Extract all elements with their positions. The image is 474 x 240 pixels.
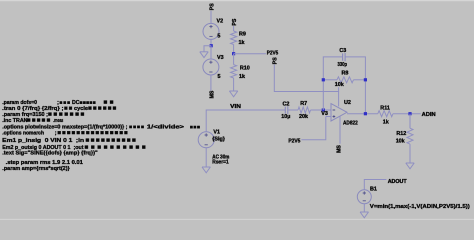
svg-text:V2: V2 bbox=[217, 19, 224, 25]
svg-text:■■■■■■■■■■■■■■■: ■■■■■■■■■■■■■■■ bbox=[57, 130, 129, 136]
svg-text:PS: PS bbox=[232, 18, 238, 25]
svg-text:R9: R9 bbox=[239, 32, 246, 38]
svg-text:ADOUT: ADOUT bbox=[388, 179, 408, 185]
svg-text:MS: MS bbox=[337, 145, 343, 153]
svg-text:■■■■■■: ■■■■■■ bbox=[88, 105, 117, 112]
svg-text:5: 5 bbox=[217, 34, 220, 40]
svg-text:■■■■■■■: ■■■■■■■ bbox=[48, 111, 86, 118]
svg-text:AD822: AD822 bbox=[343, 120, 358, 126]
svg-text:1k: 1k bbox=[239, 40, 245, 46]
svg-text:R10: R10 bbox=[240, 65, 250, 71]
svg-text:C2: C2 bbox=[283, 102, 290, 108]
svg-text:VIN: VIN bbox=[230, 104, 241, 110]
svg-text:.meas: .meas bbox=[53, 118, 63, 124]
svg-text:V1: V1 bbox=[213, 130, 220, 136]
svg-text:R11: R11 bbox=[380, 106, 390, 112]
svg-text:R8: R8 bbox=[342, 71, 349, 77]
svg-text:.step param rms 1.9 2.1 0.01: .step param rms 1.9 2.1 0.01 bbox=[6, 160, 83, 166]
svg-text:.options plotwinsize=0 maxstep: .options plotwinsize=0 maxstep={1/(frq*1… bbox=[2, 124, 127, 130]
svg-text:V=min(1,max(-1,V(ADIN,P2V5)/1.: V=min(1,max(-1,V(ADIN,P2V5)/1.5)) bbox=[370, 204, 470, 210]
svg-text:V3: V3 bbox=[217, 55, 224, 61]
svg-text:.param amp={rms*sqrt(2)}: .param amp={rms*sqrt(2)} bbox=[2, 166, 70, 172]
svg-text:B1: B1 bbox=[370, 187, 377, 193]
svg-text:10µ: 10µ bbox=[281, 114, 290, 120]
svg-text:PS: PS bbox=[210, 3, 216, 10]
svg-text:■■■■■: ■■■■■ bbox=[27, 117, 52, 124]
svg-text:.options nomarch: .options nomarch bbox=[2, 130, 44, 136]
svg-text:10k: 10k bbox=[396, 139, 405, 145]
svg-text:R7: R7 bbox=[300, 101, 307, 107]
svg-text:5: 5 bbox=[218, 74, 221, 80]
svg-text:1/<divide>: 1/<divide> bbox=[147, 124, 185, 130]
svg-text:ADIN: ADIN bbox=[422, 112, 436, 118]
svg-text:U2: U2 bbox=[344, 100, 351, 106]
svg-text:PS: PS bbox=[272, 57, 278, 64]
svg-text:■■■: ■■■ bbox=[190, 125, 201, 130]
svg-text:.inc TRAN: .inc TRAN bbox=[2, 118, 27, 124]
svg-text:1k: 1k bbox=[383, 119, 389, 125]
svg-text:10k: 10k bbox=[335, 82, 344, 88]
svg-text:330p: 330p bbox=[338, 62, 348, 68]
svg-text:MS: MS bbox=[210, 90, 216, 98]
svg-text:20k: 20k bbox=[299, 114, 308, 120]
svg-text:Rser=1: Rser=1 bbox=[212, 160, 228, 166]
svg-text:C3: C3 bbox=[339, 48, 346, 54]
svg-text:1k: 1k bbox=[239, 74, 245, 80]
svg-text:P2V5: P2V5 bbox=[288, 138, 300, 144]
svg-text:■■■■: ■■■■ bbox=[129, 124, 145, 130]
svg-text:.text Sig="SINE({dofs} {amp} {: .text Sig="SINE({dofs} {amp} {frq})" bbox=[2, 151, 98, 157]
svg-text:P2V5: P2V5 bbox=[267, 51, 278, 57]
svg-text:{Sig}: {Sig} bbox=[212, 136, 225, 142]
svg-text:Em1 p_insig 0 VIN 0 1 ;in: Em1 p_insig 0 VIN 0 1 ;in bbox=[2, 138, 84, 144]
svg-text:R12: R12 bbox=[396, 131, 406, 137]
